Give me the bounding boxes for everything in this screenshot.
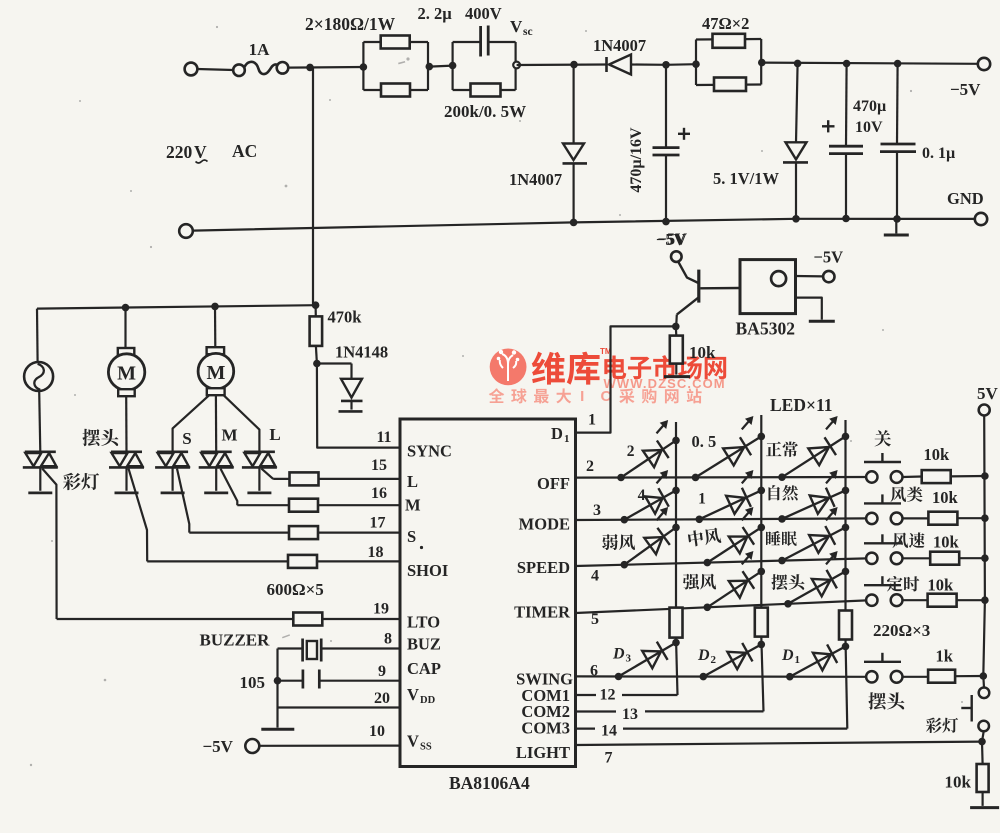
svg-text:2. 2µ: 2. 2µ bbox=[418, 4, 453, 23]
svg-text:COM3: COM3 bbox=[521, 719, 570, 738]
triac T1 colored light bbox=[25, 450, 56, 453]
svg-text:LIGHT: LIGHT bbox=[516, 743, 570, 762]
svg-text:10V: 10V bbox=[855, 119, 883, 136]
svg-text:17: 17 bbox=[370, 515, 386, 532]
wire pin 12 COM1 bbox=[576, 694, 597, 696]
terminal AC live input bbox=[185, 63, 198, 76]
ground symbol VDD bbox=[276, 708, 278, 728]
terminal GND bbox=[975, 213, 987, 225]
fuse F1 1A bbox=[233, 64, 245, 76]
zener diode 5.1V/1W bbox=[796, 63, 798, 142]
svg-text:V: V bbox=[510, 17, 523, 36]
terminal 5V bbox=[979, 405, 990, 416]
junction bbox=[662, 61, 670, 69]
wire row MODE pin3 bbox=[576, 518, 868, 520]
LED mid col2 bbox=[707, 527, 761, 562]
svg-text:200k/0. 5W: 200k/0. 5W bbox=[444, 102, 526, 121]
svg-text:D: D bbox=[551, 424, 563, 443]
svg-text:1k: 1k bbox=[936, 647, 954, 666]
svg-text:15: 15 bbox=[371, 457, 387, 474]
switch SW4 timer bbox=[866, 595, 877, 606]
wire motor M2 tap S bbox=[173, 395, 210, 452]
svg-text:5: 5 bbox=[591, 611, 599, 628]
label dingshi bbox=[887, 576, 903, 591]
wire pin 10 VSS bbox=[260, 744, 401, 746]
wire pin 18 SHOI with resistor bbox=[147, 560, 287, 562]
svg-text:D: D bbox=[697, 647, 710, 664]
motor M1 swing bbox=[124, 308, 126, 348]
svg-text:TIMER: TIMER bbox=[514, 603, 571, 622]
label bai tou motor bbox=[82, 429, 100, 446]
resistor 220ohm col3 bbox=[839, 611, 852, 640]
wire triac T2 gate bbox=[129, 469, 148, 562]
wire AC neutral rail bbox=[193, 219, 975, 231]
wire row OFF pin2 bbox=[576, 476, 867, 479]
svg-text:SPEED: SPEED bbox=[517, 558, 570, 577]
svg-text:2×180Ω/1W: 2×180Ω/1W bbox=[305, 14, 396, 34]
capacitor 105 bbox=[319, 680, 400, 682]
svg-text:M: M bbox=[405, 496, 421, 515]
svg-text:20: 20 bbox=[374, 690, 390, 707]
wire bbox=[666, 63, 696, 66]
capacitor 0.1u bbox=[896, 64, 899, 144]
LED sleep col3 bbox=[782, 527, 846, 560]
svg-text:1: 1 bbox=[795, 654, 801, 666]
svg-text:1N4148: 1N4148 bbox=[335, 343, 388, 362]
svg-text:11: 11 bbox=[376, 429, 391, 446]
svg-text:SS: SS bbox=[420, 742, 432, 753]
LED 4h col1 bbox=[624, 490, 676, 519]
resistor 220ohm col2 bbox=[755, 608, 768, 637]
wire triac T4 gate bbox=[221, 469, 238, 506]
svg-text:1A: 1A bbox=[249, 40, 271, 59]
svg-text:2: 2 bbox=[586, 458, 594, 475]
svg-text:470µ/16V: 470µ/16V bbox=[628, 127, 645, 193]
switch SW5 swing bbox=[866, 671, 877, 682]
svg-text:470k: 470k bbox=[328, 308, 363, 327]
terminal AC neutral input bbox=[179, 224, 193, 238]
wire pin 20 VDD bbox=[278, 706, 401, 708]
capacitor 2.2u 400V with 200k/0.5W bbox=[452, 42, 454, 90]
label caideng terminal bbox=[926, 717, 942, 733]
svg-text:BUZ: BUZ bbox=[407, 635, 441, 654]
switch SW6 light bbox=[979, 688, 990, 699]
label guan bbox=[874, 430, 891, 446]
wire pin 16 M with resistor bbox=[237, 504, 289, 506]
diode 1N4007 horizontal bbox=[605, 57, 608, 72]
svg-text:MODE: MODE bbox=[519, 515, 570, 534]
svg-text:14: 14 bbox=[601, 723, 617, 740]
resistor 220ohm col1 bbox=[670, 608, 683, 638]
label cai deng bbox=[63, 473, 81, 490]
diode D3 bbox=[619, 643, 677, 677]
wire BA5302 out2 ground bbox=[796, 298, 822, 320]
diode 1N4148 bbox=[317, 362, 352, 364]
wire motor distribution bbox=[37, 305, 316, 308]
LED 2h col1 bbox=[621, 440, 676, 477]
svg-text:BA: BA bbox=[736, 319, 761, 339]
svg-text:V: V bbox=[194, 142, 207, 162]
svg-text:7: 7 bbox=[605, 750, 613, 767]
label weak wind bbox=[602, 534, 618, 550]
LED 1h col2 bbox=[699, 490, 761, 519]
svg-text:LTO: LTO bbox=[407, 613, 440, 632]
svg-text:L: L bbox=[407, 472, 418, 491]
capacitor 470u/16V bbox=[665, 65, 667, 148]
wire bbox=[517, 63, 607, 66]
IC U1 BA8106A4 box bbox=[400, 419, 576, 767]
svg-text:−5V: −5V bbox=[814, 248, 844, 267]
svg-text:M: M bbox=[206, 362, 225, 384]
watermark weiku bbox=[532, 352, 565, 385]
LED weak col1 bbox=[624, 527, 676, 564]
watermark logo circle bbox=[490, 349, 527, 386]
triac T4 M bbox=[201, 450, 232, 453]
svg-text:AC: AC bbox=[232, 141, 257, 161]
junction node A bbox=[313, 360, 321, 368]
wire buzzer common bbox=[276, 649, 278, 708]
svg-text:600Ω×5: 600Ω×5 bbox=[267, 580, 324, 599]
svg-text:D: D bbox=[612, 646, 625, 663]
label natural bbox=[768, 485, 779, 500]
svg-text:0. 5: 0. 5 bbox=[692, 432, 717, 451]
svg-text:1N4007: 1N4007 bbox=[509, 170, 562, 189]
label fengsu bbox=[892, 533, 908, 548]
wire triac T5 gate bbox=[261, 469, 273, 479]
wire light switch to LIGHT bbox=[982, 731, 984, 741]
svg-text:−5V: −5V bbox=[203, 737, 234, 756]
wire triac T1 gate bbox=[42, 469, 56, 619]
wire motor M2 tap M bbox=[215, 395, 218, 452]
label swing led bbox=[771, 574, 787, 590]
switch SW1 off bbox=[866, 471, 877, 482]
svg-text:5V: 5V bbox=[977, 384, 999, 403]
svg-text:I: I bbox=[580, 388, 584, 405]
LED natural col3 bbox=[782, 490, 846, 519]
svg-text:CAP: CAP bbox=[407, 659, 441, 678]
svg-text:DD: DD bbox=[420, 695, 436, 706]
wire live branch down bbox=[312, 67, 314, 305]
svg-text:WWW.DZSC.COM: WWW.DZSC.COM bbox=[604, 376, 726, 391]
wire pin 14 COM3 bbox=[576, 727, 596, 729]
capacitor 470u/10V bbox=[845, 64, 848, 147]
svg-text:1N4007: 1N4007 bbox=[593, 36, 646, 55]
watermark dianzishichangwang bbox=[604, 356, 626, 379]
switch SW3 windspeed bbox=[866, 553, 877, 564]
svg-text:M: M bbox=[117, 363, 136, 385]
ground symbol light bbox=[970, 806, 999, 809]
svg-text:−5V: −5V bbox=[658, 230, 688, 249]
transistor Q1 bbox=[675, 315, 678, 327]
svg-text:1: 1 bbox=[588, 412, 596, 429]
wire bbox=[288, 66, 363, 69]
svg-text:3: 3 bbox=[593, 502, 601, 519]
wire LED column 2 bbox=[760, 415, 762, 608]
svg-text:105: 105 bbox=[240, 673, 266, 692]
svg-text:220: 220 bbox=[166, 142, 193, 162]
label strong wind bbox=[683, 574, 699, 590]
wire motor M2 tap L bbox=[224, 395, 260, 452]
watermark quanqiu zuida IC caigou wangzhan bbox=[489, 388, 505, 403]
ground symbol below 0.1u bbox=[895, 219, 897, 233]
svg-text:LED×11: LED×11 bbox=[770, 395, 833, 415]
terminal -5V VSS bbox=[245, 739, 259, 753]
svg-text:V: V bbox=[407, 685, 419, 704]
wire pin 17 S with resistor bbox=[189, 531, 289, 533]
LED strong col2 bbox=[707, 571, 761, 607]
svg-text:SHOI: SHOI bbox=[407, 561, 448, 580]
svg-text:sc: sc bbox=[523, 26, 533, 38]
label sleep bbox=[766, 531, 781, 545]
resistor 10k light bbox=[981, 742, 984, 764]
label fenglei bbox=[890, 487, 906, 502]
svg-text:GND: GND bbox=[947, 189, 984, 208]
resistor 470k bbox=[315, 305, 317, 316]
wire pin 19 LTO with resistor bbox=[57, 618, 294, 620]
triac T5 L bbox=[244, 450, 275, 453]
triac T2 swing bbox=[111, 450, 142, 453]
wire node A to SYNC pin 11 bbox=[317, 364, 400, 448]
diode D2 bbox=[703, 644, 761, 676]
wire row SPEED pin4 bbox=[576, 558, 868, 566]
svg-text:10k: 10k bbox=[933, 533, 960, 552]
svg-text:M: M bbox=[221, 426, 237, 445]
resistor group 47ohm x2 bbox=[695, 40, 697, 86]
svg-text:19: 19 bbox=[373, 601, 389, 618]
svg-text:OFF: OFF bbox=[537, 474, 570, 493]
ground symbol 10k bbox=[664, 375, 690, 378]
wire pin 15 L with resistor bbox=[273, 478, 289, 480]
svg-text:S: S bbox=[407, 527, 416, 546]
svg-text:5. 1V/1W: 5. 1V/1W bbox=[713, 169, 780, 188]
svg-text:0. 1µ: 0. 1µ bbox=[922, 145, 955, 162]
wire 5V rail bbox=[983, 416, 985, 688]
diode D1 bbox=[790, 646, 846, 676]
svg-text:1: 1 bbox=[698, 491, 706, 508]
diode 1N4007 vertical bbox=[572, 65, 574, 144]
wire BA5302 out1 bbox=[796, 275, 824, 278]
svg-text:2: 2 bbox=[711, 654, 717, 666]
svg-text:−5V: −5V bbox=[950, 80, 981, 99]
svg-text:3: 3 bbox=[626, 653, 632, 665]
label baitou button bbox=[868, 692, 886, 709]
svg-text:10: 10 bbox=[369, 723, 385, 740]
motor M2 fan main bbox=[214, 306, 217, 347]
terminal -5V right bbox=[978, 58, 990, 70]
svg-text:16: 16 bbox=[371, 485, 387, 502]
wire pin 7 LIGHT bbox=[576, 742, 983, 745]
resistor group 2x180ohm/1W bbox=[362, 42, 364, 90]
svg-text:D: D bbox=[781, 647, 794, 664]
svg-text:S: S bbox=[182, 429, 191, 448]
svg-text:SYNC: SYNC bbox=[407, 442, 452, 461]
lamp colored light bbox=[36, 309, 39, 362]
wire bbox=[198, 69, 234, 70]
svg-text:9: 9 bbox=[378, 663, 386, 680]
svg-text:10k: 10k bbox=[932, 488, 959, 507]
svg-text:4: 4 bbox=[521, 773, 530, 793]
wire pin 13 COM2 bbox=[576, 710, 617, 712]
buzzer BZ1 bbox=[321, 647, 400, 649]
svg-text:13: 13 bbox=[622, 706, 638, 723]
svg-text:470µ: 470µ bbox=[853, 98, 886, 115]
LED swingled col3 bbox=[788, 571, 846, 603]
LED normal col3 bbox=[782, 436, 846, 477]
svg-text:4: 4 bbox=[591, 568, 599, 585]
wire row TIMER pin5 bbox=[576, 600, 868, 613]
LED 0.5h col2 bbox=[696, 436, 762, 477]
svg-text:220Ω×3: 220Ω×3 bbox=[873, 621, 930, 640]
wire LED column 3 bbox=[844, 420, 846, 611]
svg-text:1: 1 bbox=[564, 433, 570, 445]
svg-text:10k: 10k bbox=[924, 445, 951, 464]
terminal -5V transistor bbox=[671, 251, 682, 262]
svg-text:BA8106A: BA8106A bbox=[449, 773, 521, 793]
svg-text:V: V bbox=[407, 732, 419, 751]
svg-text:12: 12 bbox=[600, 687, 616, 704]
label normal bbox=[766, 442, 781, 456]
wire pin 1 D1 bbox=[576, 326, 676, 432]
svg-text:400V: 400V bbox=[465, 4, 502, 23]
wire bbox=[429, 66, 452, 67]
terminal -5V BA5302 bbox=[823, 271, 834, 282]
svg-text:4: 4 bbox=[638, 487, 646, 504]
svg-text:2: 2 bbox=[627, 443, 635, 460]
svg-text:10k: 10k bbox=[928, 576, 955, 595]
optocoupler BA5302 box bbox=[740, 260, 796, 314]
resistor 10k base bbox=[675, 326, 678, 335]
label mid wind bbox=[688, 527, 722, 547]
wire row SWING pin6 bbox=[576, 675, 868, 678]
svg-text:L: L bbox=[269, 425, 280, 444]
triac T3 S bbox=[157, 450, 188, 453]
svg-text:5302: 5302 bbox=[760, 319, 795, 339]
junction bbox=[306, 64, 314, 72]
svg-text:47Ω×2: 47Ω×2 bbox=[702, 14, 749, 33]
svg-text:BUZZER: BUZZER bbox=[200, 631, 271, 650]
svg-text:10k: 10k bbox=[689, 343, 716, 362]
svg-text:18: 18 bbox=[368, 544, 384, 561]
wire LED column 1 bbox=[675, 422, 677, 608]
wire triac T3 gate bbox=[177, 469, 189, 533]
wire to -5V bbox=[762, 63, 978, 64]
svg-text:10k: 10k bbox=[945, 773, 972, 792]
svg-text:8: 8 bbox=[384, 631, 392, 648]
junction bbox=[672, 323, 680, 331]
switch SW2 windtype bbox=[866, 513, 877, 524]
